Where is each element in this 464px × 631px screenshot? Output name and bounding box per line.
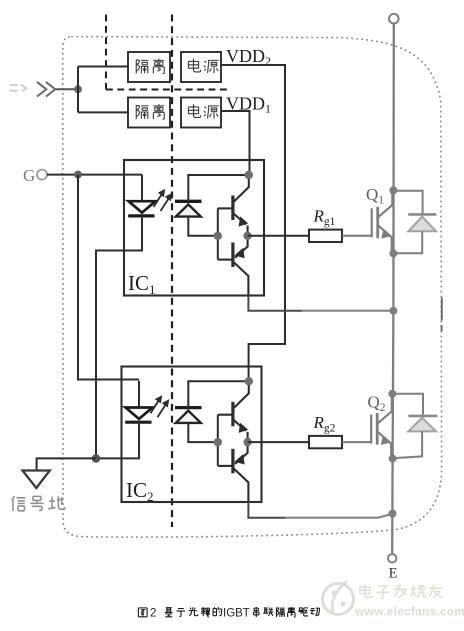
dotted enclosure border xyxy=(63,37,442,537)
diode D1 (antiparallel with Q1) xyxy=(393,191,436,253)
transistor NPN (IC1 totem top) xyxy=(218,175,249,236)
watermark text DianZiFaShaoYou xyxy=(360,584,442,598)
wire: IC1 VEE to Q1 emitter midpoint xyxy=(248,296,302,311)
photodiode (IC1) xyxy=(175,175,249,236)
wire: to ground symbol xyxy=(37,458,96,470)
faint input signal label xyxy=(10,85,28,92)
wire: to isolator 1 xyxy=(78,66,128,68)
transistor NPN (IC2 totem top) xyxy=(218,381,249,442)
terminal E xyxy=(388,554,396,562)
wire: to isolator 2 xyxy=(78,111,128,113)
wire: driver base rail (IC2) xyxy=(217,415,219,466)
LED emission arrows xyxy=(154,189,173,211)
node: driver output (IC1) xyxy=(243,232,251,240)
supply block 1 (DianYuan) xyxy=(181,52,221,82)
LED (IC1 input) xyxy=(128,175,155,218)
resistor Rg1 xyxy=(309,230,342,242)
op-amp/optocoupler IC1 box xyxy=(124,160,264,296)
wire: IC2 output to Rg2 xyxy=(248,441,309,443)
node: VDD junction (IC2) xyxy=(245,377,253,385)
node: emitter-line junction dot xyxy=(389,510,397,518)
watermark logo xyxy=(323,581,354,615)
supply block 2 (DianYuan) xyxy=(181,98,221,128)
wire: G node down to IC2 xyxy=(78,175,139,380)
dashed isolation boundary (left vertical) xyxy=(105,15,107,90)
node: midpoint junction dot xyxy=(389,307,397,315)
isolator block 1 (GeLi) xyxy=(128,52,170,82)
svg-text:2: 2 xyxy=(150,608,156,620)
node: VDD junction (IC1) xyxy=(245,171,253,179)
svg-text:G: G xyxy=(23,166,35,185)
dashed isolation barrier (central vertical) xyxy=(171,15,173,528)
LED (IC2 input) xyxy=(125,381,152,424)
node: driver output (IC2) xyxy=(243,438,251,446)
transistor PNP (IC1 totem bottom) xyxy=(218,236,249,296)
node: Q1 collector dot xyxy=(389,186,397,194)
wire: G to IC1 LED anode xyxy=(47,174,142,176)
transistor PNP (IC2 totem bottom) xyxy=(218,442,249,502)
isolator block 2 (GeLi) xyxy=(128,98,170,128)
wire: input node vertical xyxy=(77,67,79,113)
resistor Rg2 xyxy=(309,436,342,448)
scan artifact line on right border xyxy=(441,298,443,332)
node: base junction (IC1) xyxy=(214,232,222,240)
label XinHaoDi (signal ground) xyxy=(12,496,65,511)
wire: Rg1 to Q1 gate xyxy=(342,235,372,237)
ground (signal ground symbol) xyxy=(23,471,50,489)
node: G junction dot xyxy=(74,171,82,179)
wire: IC2 VEE to Q2 emitter rail xyxy=(248,502,285,518)
dashed isolation boundary (horizontal between supply rows) xyxy=(106,89,228,91)
node: Q2 collector dot xyxy=(388,390,396,398)
svg-text:IGBT: IGBT xyxy=(223,608,250,620)
svg-text:E: E xyxy=(389,565,398,581)
wire: VDD2 net from supply 1 to IC2 xyxy=(221,65,285,381)
wire: chevron to input node xyxy=(56,88,79,90)
node: base junction (IC2) xyxy=(214,438,222,446)
terminal C (top collector terminal) xyxy=(389,14,399,24)
node: signal ground junction xyxy=(92,454,101,463)
op-amp/optocoupler IC2 box xyxy=(122,367,262,503)
transistor Q2 (IGBT) xyxy=(371,397,392,460)
wire: IC1 LED cathode to signal ground xyxy=(96,218,142,459)
wire: IC1 output to Rg1 xyxy=(248,235,309,237)
LED emission arrows xyxy=(151,395,170,417)
wire: IC2 LED cathode to signal ground xyxy=(96,424,140,459)
wire: VDD1 net from supply 2 to IC1 xyxy=(221,111,250,175)
terminal: G input circle xyxy=(37,170,47,180)
wire: Rg2 to Q2 gate xyxy=(342,441,371,443)
input chevron connector xyxy=(37,82,55,97)
caption: figure title xyxy=(138,607,319,620)
wire: main series rail xyxy=(392,24,394,554)
svg-text:www.elecfans.com: www.elecfans.com xyxy=(354,605,464,619)
node: Q2 emitter dot xyxy=(389,455,397,463)
transistor Q1 (IGBT) xyxy=(372,190,393,253)
diode D2 (antiparallel with Q2) xyxy=(392,394,437,459)
node: Q1 emitter dot xyxy=(389,249,397,257)
node: input junction dot xyxy=(74,85,82,93)
wire: driver base rail (IC1) xyxy=(217,208,219,259)
photodiode (IC2) xyxy=(175,381,249,442)
